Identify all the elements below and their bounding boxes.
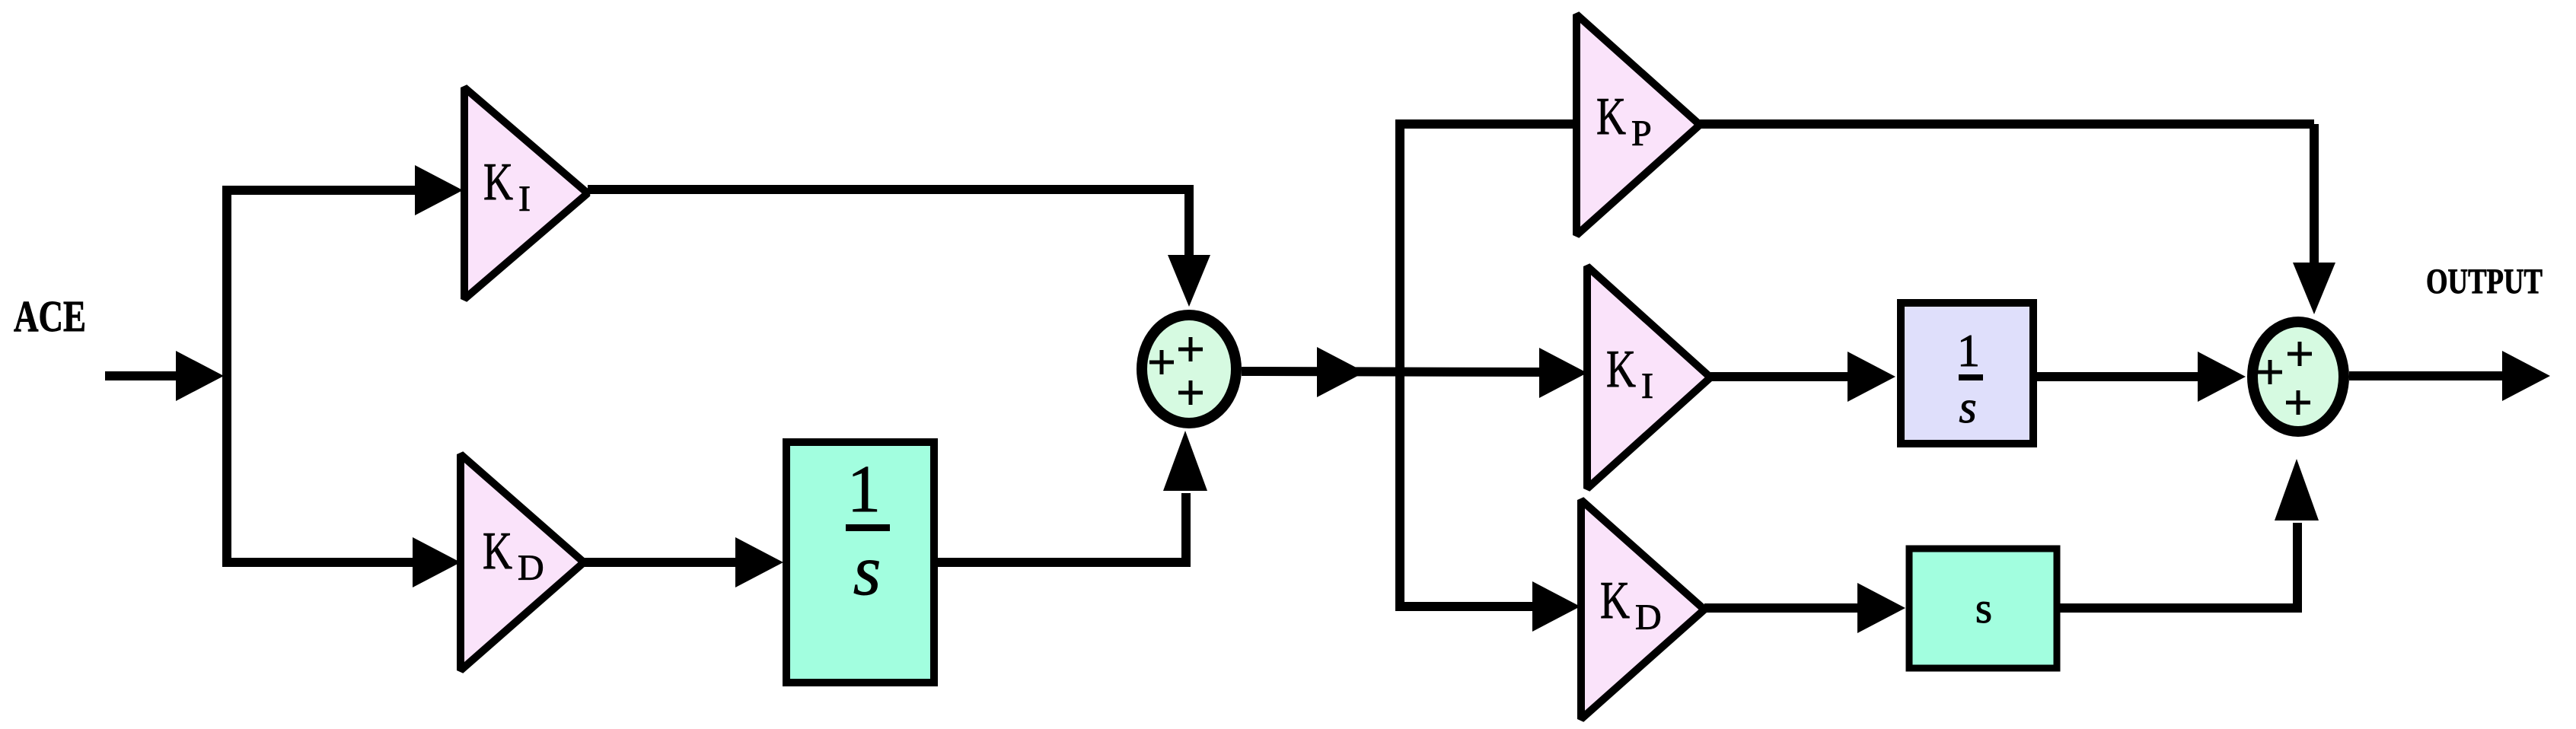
svg-text:s: s: [853, 531, 882, 610]
wire top-left branch to KI: [222, 186, 417, 195]
wire OUTPUT: [2349, 371, 2504, 380]
wire right branch vertical: [1395, 124, 1404, 606]
label KI left: [483, 153, 531, 219]
gain KD left triangle: [461, 454, 584, 670]
wire 1/s-left output to summing node S1: [938, 493, 1186, 567]
plus sign S2 upper: [2287, 342, 2312, 366]
arrowhead into S2 left: [2198, 352, 2246, 402]
plus sign S1 lower: [1178, 380, 1203, 405]
arrowhead input into node A: [176, 351, 224, 401]
integrator block 1/s right: [1901, 303, 2033, 444]
svg-text:s: s: [1959, 382, 1976, 432]
arrowhead into KI left: [415, 165, 463, 215]
arrowhead mid-wire at junction: [1317, 347, 1365, 397]
derivative block s: [1909, 549, 2057, 668]
svg-text:K: K: [483, 153, 513, 212]
svg-text:OUTPUT: OUTPUT: [2426, 262, 2543, 301]
summing node S2: [2252, 322, 2344, 431]
wire KI-left output to summing node S1: [588, 185, 1189, 259]
wire left branch vertical: [222, 190, 231, 562]
wire bottom-left branch to KD: [222, 558, 415, 567]
svg-text:ACE: ACE: [14, 291, 86, 341]
gain KI right triangle: [1587, 266, 1710, 489]
svg-text:K: K: [483, 522, 512, 581]
wire bottom-right branch to KD right: [1395, 602, 1533, 611]
svg-text:D: D: [1635, 597, 1662, 638]
label KD left: [483, 522, 544, 588]
label KP: [1596, 88, 1652, 154]
arrowhead into KD left: [413, 537, 461, 587]
svg-text:K: K: [1596, 88, 1626, 146]
svg-text:I: I: [1641, 366, 1653, 406]
wire KP output to summing node S2: [1700, 124, 2314, 265]
svg-text:K: K: [1600, 571, 1630, 630]
label KI right: [1606, 340, 1653, 406]
arrowhead output: [2502, 351, 2550, 401]
plus sign S1 left: [1149, 350, 1174, 374]
wire top-right branch to KP: [1395, 119, 1577, 129]
arrowhead into KI right: [1539, 348, 1587, 398]
arrowhead up into S2 bottom: [2275, 459, 2319, 520]
summing node S1: [1142, 315, 1236, 423]
svg-text:K: K: [1606, 340, 1636, 399]
gain KD right triangle: [1581, 500, 1704, 719]
plus sign S2 left: [2258, 360, 2282, 384]
svg-text:D: D: [518, 548, 544, 588]
arrowhead down into S1 top: [1168, 255, 1210, 307]
wire 1/s-right output to S2: [2033, 372, 2200, 381]
svg-text:P: P: [1631, 113, 1652, 154]
plus sign S1 upper: [1178, 337, 1203, 361]
svg-text:I: I: [518, 179, 531, 219]
wire KD-right output to s box: [1704, 603, 1858, 613]
arrowhead into 1/s left box: [735, 537, 783, 587]
svg-text:s: s: [1975, 584, 1992, 632]
wire KD-left output to integrator box: [584, 558, 736, 567]
label 1/s left: [846, 453, 890, 610]
svg-text:1: 1: [847, 453, 881, 527]
arrowhead into s box: [1857, 583, 1905, 633]
arrowhead into KD right: [1532, 581, 1580, 632]
label 1/s right: [1957, 326, 1983, 432]
label KD right: [1600, 571, 1662, 638]
gain KI left triangle: [464, 88, 588, 299]
plus sign S2 lower: [2286, 390, 2310, 415]
wire S1 output through junction to KI right: [1242, 371, 1541, 372]
integrator block 1/s left: [786, 442, 934, 683]
arrowhead into 1/s right box: [1848, 352, 1895, 402]
arrowhead up into S1 bottom: [1163, 431, 1207, 491]
wire KI-right output to 1/s right box: [1710, 372, 1848, 381]
gain KP triangle: [1577, 14, 1700, 235]
wire input from ACE: [105, 371, 183, 380]
svg-text:1: 1: [1957, 326, 1980, 376]
arrowhead down into S2 top: [2293, 263, 2335, 314]
wire s-box output to S2 bottom: [2057, 523, 2297, 613]
